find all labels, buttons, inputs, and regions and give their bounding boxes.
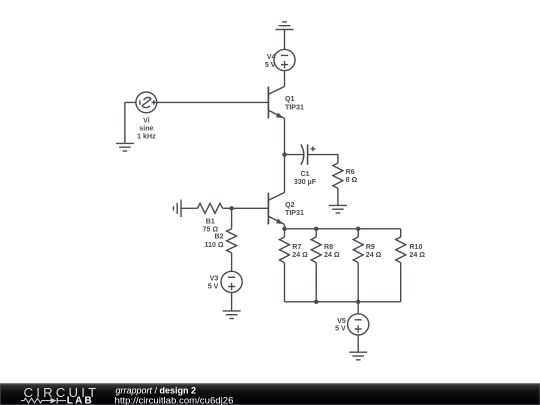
wire node to Q2 base: [232, 207, 269, 209]
voltage source V3: [221, 271, 242, 292]
wire rail to V5: [357, 302, 359, 314]
svg-text:24 Ω: 24 Ω: [324, 251, 340, 259]
label B2 110 ohm: [204, 233, 223, 249]
svg-text:R7: R7: [292, 243, 301, 251]
wire R10 to bottom rail: [400, 263, 402, 302]
label Vi sine 1 kHz: [137, 116, 156, 140]
transistor Q2 TIP31: [268, 193, 284, 225]
resistor R10: [396, 237, 406, 263]
footer bar: [0, 384, 540, 405]
label R7 24 ohm: [292, 243, 308, 259]
wire rail to R10: [400, 229, 402, 237]
ground left of B1 (rotated): [173, 200, 181, 217]
svg-text:sine: sine: [139, 124, 153, 132]
ground top (inverted, above V4): [276, 22, 294, 30]
top rail: [285, 228, 401, 230]
svg-text:24 Ω: 24 Ω: [366, 251, 382, 259]
svg-text:110 Ω: 110 Ω: [204, 241, 223, 249]
logo mark: wire to LAB: [58, 400, 66, 402]
svg-text:R6: R6: [346, 168, 355, 176]
wire B1 to node: [223, 207, 232, 209]
svg-text:B1: B1: [206, 217, 215, 225]
node rail R8: [314, 227, 318, 231]
svg-text:5 V: 5 V: [335, 324, 346, 332]
ground below V5: [349, 352, 367, 360]
svg-text:1 kHz: 1 kHz: [137, 133, 156, 141]
svg-text:Q1: Q1: [285, 95, 295, 103]
wire R7 to bottom rail: [284, 263, 286, 302]
svg-text:R9: R9: [366, 243, 375, 251]
label C1 330 uF: [294, 170, 317, 186]
label V5 5 V: [335, 317, 346, 333]
wire rail to R8: [315, 229, 317, 237]
resistor B2: [227, 229, 237, 253]
node rail R9: [356, 227, 360, 231]
ground below R6: [329, 205, 347, 213]
svg-text:24 Ω: 24 Ω: [292, 251, 308, 259]
wire Vi left to ground: [125, 102, 136, 143]
svg-text:http://circuitlab.com/cu6dj26: http://circuitlab.com/cu6dj26: [115, 395, 234, 405]
wire node down to Q2 collector: [284, 155, 286, 193]
label R8 24 ohm: [324, 243, 340, 259]
logo mark: diode: [51, 398, 58, 404]
ground below Vi: [116, 143, 134, 151]
svg-text:B2: B2: [215, 233, 224, 241]
wire C1 to R6: [308, 155, 338, 163]
wire V4 to Q1 collector: [284, 71, 286, 87]
wire Q1 emitter down to node: [284, 118, 286, 154]
label V4 5 V: [265, 53, 276, 69]
svg-text:C1: C1: [300, 170, 309, 178]
svg-text:Vi: Vi: [143, 116, 150, 124]
bottom rail: [285, 301, 401, 303]
label V3 5 V: [208, 275, 219, 291]
svg-text:V4: V4: [267, 53, 276, 61]
svg-text:24 Ω: 24 Ω: [409, 251, 425, 259]
svg-text:330 µF: 330 µF: [294, 178, 317, 186]
svg-text:TIP31: TIP31: [285, 103, 304, 111]
wire node down to B2: [231, 208, 233, 228]
svg-text:grrapport / design 2: grrapport / design 2: [116, 385, 197, 395]
svg-text:R8: R8: [324, 243, 333, 251]
resistor R7: [280, 237, 290, 263]
svg-text:V3: V3: [210, 275, 219, 283]
label B1 75 ohm: [203, 217, 219, 233]
svg-text:TIP31: TIP31: [285, 209, 304, 217]
source Vi circle: [136, 92, 157, 113]
transistor Q1 TIP31: [268, 87, 284, 119]
resistor B1: [198, 203, 223, 213]
svg-text:R10: R10: [409, 243, 422, 251]
wire V3 to ground: [231, 293, 233, 311]
label Q2 TIP31: [285, 201, 304, 217]
wire ground to V4: [284, 30, 286, 50]
label R6 8 ohm: [346, 168, 358, 184]
wire V5 to ground: [357, 335, 359, 352]
voltage source V4: [274, 49, 295, 70]
node bottom rail R8: [314, 300, 318, 304]
wire rail to R9: [357, 229, 359, 237]
wire R8 to bottom rail: [315, 263, 317, 302]
node bottom rail V5: [356, 300, 360, 304]
capacitor C1 (polarized): [301, 144, 316, 164]
label R10 24 ohm: [409, 243, 425, 259]
node: Q1 emitter / C1 / Q2 collector junction: [282, 152, 286, 156]
label R9 24 ohm: [366, 243, 382, 259]
resistor R8: [311, 237, 321, 263]
wire node to C1: [285, 154, 304, 156]
wire R6 to ground: [337, 188, 339, 205]
svg-text:8 Ω: 8 Ω: [346, 176, 358, 184]
node rail left (R7): [282, 227, 286, 231]
node B1/B2/Q2-base junction: [229, 206, 233, 210]
resistor R9: [353, 237, 363, 263]
voltage source V5: [348, 314, 369, 335]
wire Q2 emitter to rail: [284, 224, 286, 228]
resistor R6: [333, 163, 343, 188]
svg-text:5 V: 5 V: [265, 61, 276, 69]
wire R9 to bottom rail: [357, 263, 359, 302]
wire rail to R7: [284, 229, 286, 237]
svg-text:5 V: 5 V: [208, 283, 219, 291]
wire ground to B1: [181, 207, 198, 209]
label Q1 TIP31: [285, 95, 304, 111]
svg-text:Q2: Q2: [285, 201, 295, 209]
logo mark: resistor zigzag: [21, 398, 51, 403]
wire Vi to Q1 base: [157, 101, 269, 103]
svg-text:LAB: LAB: [67, 395, 94, 405]
wire B2 to V3: [231, 253, 233, 271]
ground below V3: [223, 311, 241, 319]
